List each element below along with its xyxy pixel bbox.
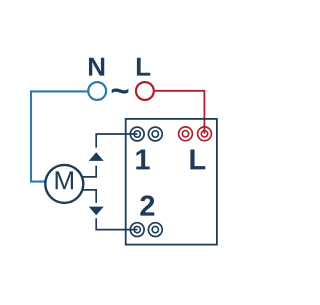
motor M circle [45, 165, 83, 203]
switch terminal 1a inner [134, 131, 140, 137]
AC tilde symbol [112, 88, 129, 93]
switch terminal 2b outer [148, 223, 162, 237]
label L (switch) [190, 149, 205, 169]
label 1 [136, 149, 149, 169]
motor M letter [56, 171, 73, 189]
wire neutral (blue) from N terminal to motor [31, 91, 88, 181]
switch box outline [126, 119, 217, 245]
switch terminal 2b inner [152, 226, 158, 232]
wire from down arrow to terminal 2 [96, 218, 137, 229]
label N [89, 58, 104, 76]
switch terminal 2a inner [134, 226, 140, 232]
switch terminal La outer [179, 127, 193, 141]
wire from motor to down arrow [83, 190, 96, 203]
switch terminal 1b outer [148, 127, 162, 141]
wire from up arrow to terminal 1 [96, 134, 137, 148]
switch terminal 2a outer [130, 223, 144, 237]
terminal N circle [88, 82, 106, 100]
switch terminal Lb outer [198, 127, 212, 141]
wire from motor to up arrow [83, 166, 96, 177]
switch terminal 1a outer [130, 127, 144, 141]
label 2 [140, 195, 154, 215]
arrow down [89, 207, 104, 216]
switch terminal Lb inner [201, 131, 207, 137]
arrow up [89, 152, 104, 161]
switch terminal 1b inner [152, 131, 158, 137]
terminal L circle [136, 82, 154, 100]
label L (supply) [137, 58, 150, 76]
wire live (red) from L terminal to switch L terminal [155, 91, 205, 134]
switch terminal La inner [182, 131, 188, 137]
